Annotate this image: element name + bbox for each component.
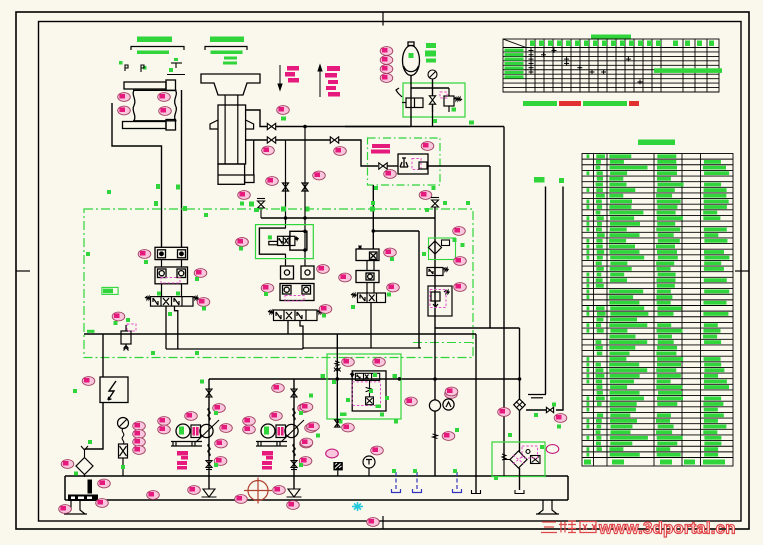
clamp cylinder top rod cap [166, 80, 176, 91]
solenoid action table grid [503, 39, 719, 92]
cyan cooler mark [352, 502, 363, 511]
wire press rod side drop [253, 140, 255, 175]
motor circle pump2 [261, 424, 275, 438]
balloon reducing valve [421, 142, 434, 151]
balloon press valve B [266, 177, 279, 186]
pump circle pump2 [285, 424, 298, 437]
clamp legend green marks [119, 58, 178, 72]
electric control box [100, 377, 128, 403]
press cylinder crosshead [201, 74, 260, 95]
press cylinder left trunnion [210, 120, 218, 129]
junction reducing drop [372, 229, 376, 233]
balloon accumulator 60 [380, 56, 393, 65]
balloon pump3 b [445, 387, 458, 396]
flex hose upper pump1 [208, 408, 210, 420]
wire module2 drain b [300, 321, 303, 335]
wire accumulator manifold to press line [345, 126, 504, 128]
pump arrow pump1 [196, 420, 219, 442]
balloon heater [96, 499, 109, 508]
wire y328 cross [435, 327, 520, 329]
wire reducing valve drop to module3 [372, 185, 374, 249]
pump circle pump1 [200, 424, 213, 437]
wire return drop left lower [85, 402, 104, 449]
filter diamond dashes [513, 455, 524, 464]
balloon module3 lower [387, 283, 400, 292]
filter green box bottom right [492, 442, 545, 477]
svg-text:www.3dportal.cn: www.3dportal.cn [598, 519, 736, 538]
tank support right [536, 500, 559, 514]
press title bracket [205, 47, 247, 51]
balloon press valve A [262, 146, 275, 155]
upper filter diamond internals [516, 402, 523, 409]
green sq under press note balloon [281, 117, 286, 121]
note text line [523, 101, 639, 106]
balloon suction pump1 [214, 457, 227, 466]
magenta note stack left [285, 66, 299, 83]
press check valve down B [302, 127, 308, 267]
clamp cylinder body [133, 90, 177, 121]
balloon accumulator 69 [380, 65, 393, 74]
balloon pump side pump2 [305, 424, 318, 433]
clamp legend glyph b [141, 65, 144, 72]
wire drain riser [302, 334, 304, 349]
green sq bypass a [469, 121, 474, 125]
junction pilot header a [284, 216, 288, 220]
junction pump3 manifold [433, 377, 437, 381]
balloon right column solenoid [454, 257, 467, 266]
wire return to tank right [475, 334, 477, 493]
filter spring bottom right [502, 454, 506, 460]
press cylinder lower block [218, 164, 254, 184]
balloon clamp port D [159, 107, 172, 116]
wire right column vertical [434, 207, 436, 400]
pump station relief sub [366, 380, 374, 404]
oil tank top [65, 475, 568, 477]
balloon clamp port A [118, 93, 131, 102]
arrow down left [278, 65, 282, 90]
green sq solenoid box [268, 235, 272, 239]
pressure gauge top [428, 70, 437, 79]
junction filter manifold [518, 377, 522, 381]
reducing valve green dashed box [368, 138, 441, 185]
suction pipe dashed a [392, 472, 401, 493]
flex hose lower pump2 [293, 444, 295, 456]
component table cell text [587, 154, 730, 456]
balloon module1 right [236, 238, 249, 247]
magenta note stack right [325, 66, 340, 97]
balloon mid valve [334, 147, 347, 156]
wire filter to tank bottom right [519, 468, 521, 490]
balloon motor lower pump2 [243, 425, 256, 434]
oil tank right wall [567, 476, 569, 500]
balloon return filter [61, 460, 74, 469]
clamp legend glyph a [125, 65, 128, 71]
balloon pump unit pump2 [300, 439, 313, 448]
module3 upper block [356, 246, 379, 261]
flex hose lower pump1 [208, 444, 210, 456]
wire station inlet riser [336, 334, 338, 428]
check valve riser B [546, 407, 553, 412]
wire filter to riser B [526, 409, 546, 411]
empty balloon filter box right [546, 445, 559, 454]
wire filter riser upper [519, 328, 521, 399]
press check valve down A [283, 140, 289, 266]
wire pump3 suction [434, 411, 436, 476]
balloon thermometer [371, 446, 384, 455]
balloon reducing line [313, 171, 326, 180]
module3 directional valve [351, 293, 386, 303]
check valve station drain [335, 420, 340, 427]
balloon accumulator 78 [380, 74, 393, 83]
wire pump column pump2 [293, 379, 295, 489]
filter diamond bottom right [510, 451, 527, 468]
shutoff valve reducing inlet [379, 163, 387, 169]
junction station inlet [336, 377, 340, 381]
module1 upper check poppets [159, 251, 184, 256]
module2 pilot dashed [285, 296, 304, 302]
green label rect [102, 287, 118, 294]
clamp legend tank symbol [167, 63, 185, 75]
wire gauge down [432, 79, 434, 96]
balloon station c [300, 438, 313, 447]
pump3 suction spring [433, 434, 438, 439]
wire to reducing valve box [339, 140, 379, 166]
balloon pump3 top [445, 390, 458, 399]
balloon pilot solenoid [236, 238, 249, 247]
module1 wires to valve [162, 260, 182, 297]
check valve press port B [267, 137, 275, 143]
module1 pilot dashed [161, 278, 180, 284]
balloon module2 left [261, 284, 274, 293]
wire x419 drain [418, 231, 420, 348]
filter tap box [442, 240, 450, 246]
tank support left [64, 500, 87, 514]
flex hose upper pump2 [293, 408, 295, 420]
solenoid action table title [591, 35, 631, 40]
manifold inner dash line [413, 342, 473, 344]
solenoid table wide green bar [654, 68, 722, 73]
module1 lower block [155, 267, 188, 284]
coupling pump2 [276, 425, 286, 438]
balloon gauge set 442 [133, 438, 146, 447]
centering tick bottom [382, 516, 384, 529]
thermometer [363, 456, 375, 476]
balloon motor upper pump2 [243, 417, 256, 426]
arrow up right [318, 65, 322, 97]
wire drain header [303, 347, 421, 349]
balloon pump3 a [405, 397, 418, 406]
component table grid [582, 154, 733, 467]
station inlet spring valve [334, 361, 341, 372]
filter green box right column [429, 238, 456, 260]
check valve discharge pump2 [291, 389, 297, 397]
accumulator green mark [409, 53, 414, 58]
solenoid box right frame [290, 231, 307, 250]
solenoid box green frame [256, 225, 314, 259]
manifold green dash-dot box [84, 209, 473, 358]
balloon electric box [82, 377, 95, 386]
wire pump column pump1 [208, 379, 210, 489]
relief pilot dashed right column [430, 290, 446, 308]
balloon clamp port B [158, 93, 171, 102]
green sqs station [321, 373, 398, 424]
bleed valve press drain [257, 199, 265, 219]
balloon right column filter [453, 227, 466, 236]
check valve press port A [267, 123, 275, 129]
wire between filters [519, 411, 521, 452]
balloon module3 upper [384, 248, 397, 257]
crosshair mark [244, 478, 272, 504]
module2 upper check block [281, 266, 315, 279]
relief valve right column box [428, 286, 452, 316]
balloon below reducing box [419, 191, 432, 200]
solenoid table header marks [530, 41, 714, 47]
press cylinder right trunnion [246, 120, 254, 129]
balloon module2 valve [319, 305, 332, 314]
wire reducing inlet [387, 165, 398, 167]
reducing valve pilot dashed [412, 159, 421, 170]
filter bypass box [526, 450, 540, 464]
wire press port B east [276, 139, 331, 141]
relief valve on return [121, 325, 131, 351]
bleed valve right column [431, 198, 439, 208]
clamp cylinder title text [137, 37, 172, 43]
balloon right pipe [498, 408, 511, 417]
balloon cooler [367, 518, 380, 527]
pump station pilot valve [350, 373, 380, 380]
balloon tank a [147, 491, 160, 500]
wire main return [84, 333, 476, 335]
oil tank bottom [65, 499, 568, 501]
coupling pump1 [191, 425, 201, 438]
tank heater [68, 495, 98, 502]
green tick marks [73, 119, 561, 480]
wire bypass riser to bottom filter [503, 127, 505, 460]
wire pilot header [261, 217, 435, 219]
balloon module2 upper [317, 265, 330, 274]
wire reducing outlet [428, 165, 490, 167]
pump arrow pump2 [281, 420, 304, 442]
wire return drop left [102, 334, 104, 377]
balloon module1 upper [138, 250, 151, 259]
press title green bars [211, 51, 243, 65]
suction strainer pump2 [287, 489, 302, 497]
empty balloon level box [326, 449, 339, 458]
solenoid box black bracket [259, 228, 285, 254]
pump station pilot arrow [366, 387, 373, 391]
pipe end bracket return [472, 490, 481, 494]
balloon pump top pump1 [185, 412, 198, 421]
green mark riser A [534, 177, 545, 183]
suction pipe dashed b [413, 472, 422, 493]
wire press port A to accumulator drop [276, 126, 411, 128]
component table title [638, 140, 675, 146]
balloon tank c [235, 495, 248, 504]
component table footer header row [584, 460, 725, 465]
balloon accumulator 51 [380, 47, 393, 56]
balloon gauge set 426 [133, 422, 146, 431]
wire accumulator down [410, 75, 412, 127]
balloon pump3 suction [442, 432, 455, 441]
pump station green box [327, 354, 401, 419]
green sq bypass b [452, 108, 457, 112]
balloon strainer pump1 [188, 486, 201, 495]
balloon pump side pump1 [220, 424, 233, 433]
balloon level gauge [98, 479, 111, 488]
gauge isolator valve [119, 444, 128, 458]
balloon motor upper pump1 [158, 417, 171, 426]
wire module3 drain [370, 303, 372, 349]
wire riser A [545, 187, 547, 395]
module1 upper check block [155, 247, 188, 259]
isolator valve [429, 96, 435, 104]
pump station pilot dashed region [352, 382, 380, 406]
accumulator green box [403, 83, 465, 117]
check valve suction pump1 [206, 461, 212, 470]
balloon module1 lower [194, 269, 207, 278]
wire level box stem [337, 470, 339, 476]
lightning bolt [108, 381, 116, 400]
suction pipe dashed c [453, 472, 462, 493]
balloon module2 mid [197, 298, 210, 307]
pilot solenoid valve [269, 236, 299, 245]
clamp cylinder bottom rod cap [166, 120, 176, 131]
module2 directional valve [268, 310, 323, 321]
balloon pump station a [342, 358, 355, 367]
reducing valve magenta label [371, 144, 390, 154]
motor circle pump1 [176, 424, 190, 438]
centering tick right [735, 270, 749, 272]
balloon gauge set 450 [133, 446, 146, 455]
wire manifold top [411, 87, 450, 89]
balloon suction pump2 [299, 457, 312, 466]
filter pilot dashed bottom right [522, 446, 538, 458]
check solenoid right column [427, 268, 449, 276]
balloon station d [342, 423, 355, 432]
reducing valve spring box [419, 162, 427, 169]
suction strainer pump1 [202, 489, 217, 497]
balloon station b [307, 422, 320, 431]
magenta label pump pump1 [177, 451, 188, 470]
upper filter diamond [514, 399, 526, 411]
shutoff valve mid line [330, 137, 338, 143]
green mark riser B [559, 178, 564, 183]
pump3 circle [429, 399, 454, 411]
watermark 3dportal [541, 521, 596, 533]
wire press supply riser [489, 166, 491, 328]
check valve suction pump2 [291, 461, 297, 470]
wire press lower port [246, 139, 268, 141]
relief pilot dashed on return [127, 324, 136, 331]
wire gauge to tank [122, 458, 124, 476]
filter diamond right column [429, 241, 442, 254]
clamp cylinder bottom rod [123, 122, 167, 129]
relief valve accumulator [433, 88, 463, 112]
wire clamp left port down [112, 103, 162, 247]
wire isolator drain [432, 104, 434, 127]
centering tick top [382, 12, 384, 26]
balloon strainer pump2 [273, 486, 286, 495]
accumulator shell [403, 42, 420, 76]
wire clamp right port down [181, 90, 183, 247]
centering tick left [16, 270, 30, 272]
wire drain collector left [166, 348, 303, 350]
module3 lower block [356, 271, 379, 283]
pipe end bracket filter [515, 490, 524, 494]
balloon pump top pump2 [270, 412, 283, 421]
pilot dashed box accumulator [440, 92, 447, 98]
module3 wires [367, 261, 374, 294]
wire pump discharge manifold [209, 378, 520, 380]
balloon motor lower pump1 [158, 425, 171, 434]
balloon tank support [59, 505, 72, 514]
pump station valve frame [352, 371, 386, 411]
balloon module2 lower [339, 273, 352, 282]
balloon discharge pump2 [298, 404, 311, 413]
tank level gauge [88, 480, 93, 494]
magenta label pump pump2 [262, 451, 273, 470]
solenoid table row labels [505, 49, 524, 79]
oil tank left wall [64, 476, 66, 500]
green sq pump pump1 [214, 411, 218, 467]
filter left leg [504, 460, 510, 477]
wire module1 drain a [165, 306, 167, 349]
press cylinder piston rod [225, 95, 238, 164]
wire module1 drain b [175, 306, 178, 349]
junction solenoid frame top [303, 230, 307, 234]
junction pilot header b [303, 216, 307, 220]
accumulator green notes [425, 43, 436, 63]
junction press line [303, 125, 307, 129]
module1 directional valve [145, 297, 199, 307]
return filter diamond [76, 458, 93, 475]
module2 lower block [280, 284, 314, 301]
level indicator box [333, 462, 342, 470]
reducing valve body [398, 154, 428, 174]
balloon clamp port C [118, 106, 131, 115]
riser A vent cap [528, 395, 546, 398]
pump base pump1 [171, 442, 202, 447]
balloon pump2 top [272, 384, 285, 393]
pump base pump2 [256, 442, 287, 447]
wire filter to tank [84, 475, 86, 478]
balloon station a [300, 403, 313, 412]
green bar near return [87, 330, 95, 333]
wire riser B [556, 187, 563, 411]
junction solenoid frame bottom [303, 248, 307, 252]
wire module2 drain a [287, 321, 289, 335]
press cylinder title text [210, 37, 244, 43]
balloon pump station b [373, 358, 386, 367]
balloon riser check [554, 414, 567, 423]
gauge snubber line [122, 429, 124, 445]
pressure gauge lower [118, 418, 129, 429]
clamp cylinder top rod [124, 82, 166, 89]
solenoid table plus marks [529, 48, 643, 84]
balloon inside reducing box [384, 170, 397, 179]
clamp title bracket [131, 47, 184, 51]
balloon module1 valve [112, 312, 125, 321]
balloon right column relief [454, 283, 467, 292]
balloon tank e [287, 501, 300, 510]
check valve discharge pump1 [206, 389, 212, 397]
balloon discharge pump1 [213, 404, 226, 413]
balloon press drain [238, 191, 251, 200]
press cylinder barrel [218, 105, 246, 164]
green sq pump pump2 [299, 411, 303, 467]
balloon gauge set 434 [133, 430, 146, 439]
clamp title green bar [137, 51, 169, 55]
